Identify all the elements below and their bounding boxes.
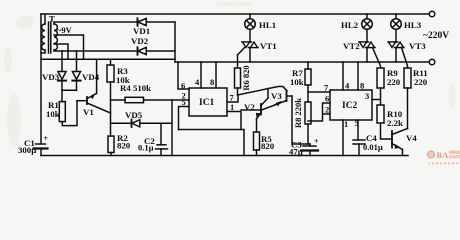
terminal bottom 220V [429, 59, 435, 65]
svg-text:4: 4 [345, 81, 350, 91]
svg-text:VT3: VT3 [409, 41, 426, 51]
svg-text:IC1: IC1 [199, 98, 215, 108]
IC U1 timer IC1 [189, 88, 227, 116]
svg-text:V3: V3 [271, 91, 282, 101]
svg-text:3: 3 [365, 91, 369, 101]
svg-text:+: + [314, 137, 319, 146]
wire VD1 cathode to junction [146, 21, 175, 23]
svg-text:VD1: VD1 [133, 26, 150, 36]
svg-text:HL1: HL1 [259, 20, 276, 30]
resistor R2 [108, 123, 114, 155]
triac VT2 [359, 42, 381, 68]
wire secondary top tap to VD1 [54, 22, 138, 24]
wire secondary tap2 [54, 35, 84, 59]
svg-text:5: 5 [182, 97, 186, 107]
wire IC2 pin4 [342, 62, 344, 90]
wire IC1 pin7 [227, 95, 238, 102]
svg-text:7: 7 [230, 93, 235, 103]
wire R6 to V3 collector rising line [238, 87, 288, 96]
svg-text:1: 1 [230, 102, 234, 112]
resistor R5 [254, 132, 260, 156]
svg-text:BA: BA [437, 150, 450, 160]
svg-text:10k: 10k [290, 77, 304, 87]
transformer T primary lead top [44, 14, 46, 24]
svg-text:1: 1 [344, 119, 348, 129]
resistor R6 [235, 68, 241, 95]
svg-text:8: 8 [360, 81, 364, 91]
lamp HL2 [362, 14, 373, 42]
svg-text:T: T [49, 14, 55, 24]
wire IC2 pin6 pin2 tie [308, 103, 330, 121]
resistor R10 [377, 105, 392, 139]
svg-text:4: 4 [195, 77, 200, 87]
resistor R7 [305, 62, 311, 102]
svg-text:2: 2 [325, 105, 329, 115]
svg-text:+: + [44, 134, 49, 143]
capacitor C4 [353, 140, 365, 156]
triac VT3 [388, 42, 408, 68]
diode VD4 [72, 51, 80, 90]
wire IC2 pin3 [372, 99, 381, 101]
svg-text:VT2: VT2 [343, 41, 360, 51]
wire IC1 pin5 [179, 107, 190, 130]
capacitor C1 [34, 144, 48, 156]
svg-text:R8 220k: R8 220k [293, 98, 303, 128]
svg-text:2.2k: 2.2k [387, 118, 403, 128]
wire top mains rail [41, 13, 429, 15]
svg-text:10k: 10k [46, 109, 60, 119]
svg-text:R6 820: R6 820 [241, 65, 251, 90]
svg-text:7: 7 [324, 83, 329, 93]
wire VD2 cathode to junction [146, 50, 175, 52]
transistor V1 [77, 59, 111, 113]
wire left edge [40, 14, 42, 144]
diode VD1 [138, 18, 147, 25]
wire secondary tap3 [54, 44, 68, 59]
lamp HL3 [391, 14, 402, 42]
wire IC1 pin1 [227, 112, 241, 130]
svg-text:VT1: VT1 [260, 41, 277, 51]
svg-text:300µ: 300µ [18, 145, 36, 155]
transformer T core [49, 22, 51, 53]
terminal top 220V [429, 11, 435, 17]
transistor V4 [392, 129, 408, 156]
wire mid rail left (y58) [41, 58, 175, 60]
wire VD3 VD4 cathode bus [62, 89, 77, 91]
scan smudges decorative [4, 2, 456, 147]
transistor V3 [262, 91, 311, 145]
resistor R3 [107, 59, 114, 123]
svg-text:220: 220 [414, 77, 428, 87]
svg-text:6: 6 [325, 94, 329, 104]
IC U2 timer IC2 [330, 90, 372, 120]
svg-text:47µ: 47µ [289, 147, 303, 157]
watermark logo [428, 150, 460, 164]
svg-text:5: 5 [355, 118, 359, 128]
resistor R8 [305, 102, 311, 144]
svg-text:R4 510k: R4 510k [120, 83, 151, 93]
diode VD3 [58, 51, 66, 90]
wire trigger column to ground [171, 100, 173, 156]
svg-text:220: 220 [387, 77, 401, 87]
wire IC1 pin4 [200, 62, 202, 88]
diode VD2 [138, 47, 147, 54]
svg-text:0.1µ: 0.1µ [138, 143, 154, 153]
wire IC2 pin1 [342, 120, 344, 156]
wire ground return U [179, 130, 245, 156]
svg-text:VD4: VD4 [82, 72, 100, 82]
svg-text:VD5: VD5 [125, 110, 143, 120]
wire IC1 pin6 [178, 62, 189, 89]
svg-text:8: 8 [210, 77, 214, 87]
wire IC2 pin5 [357, 120, 359, 140]
transistor V2 [241, 89, 268, 133]
svg-text:VD3: VD3 [42, 72, 60, 82]
resistor R4 [111, 97, 190, 102]
svg-text:V4: V4 [406, 133, 417, 143]
wire bottom ground rail [41, 155, 408, 157]
wire Vcc rail right (y62) [175, 61, 429, 63]
lamp HL1 [245, 14, 256, 42]
svg-text:6: 6 [181, 81, 185, 91]
capacitor C2 [156, 123, 168, 155]
wire IC2 pin7 [308, 91, 330, 93]
wire IC1 pin8 [215, 62, 217, 88]
svg-text:HL2: HL2 [341, 20, 359, 30]
diode VD5 [111, 120, 173, 128]
resistor R1 [59, 90, 65, 121]
svg-text:V2: V2 [244, 102, 255, 112]
transformer T primary coil [42, 24, 45, 50]
wire R1 bottom to base node [62, 101, 77, 126]
svg-text:820: 820 [261, 141, 275, 151]
svg-text:VD2: VD2 [131, 36, 149, 46]
svg-text:~9V: ~9V [57, 25, 73, 35]
capacitor C3 [301, 144, 318, 156]
svg-text:HL3: HL3 [404, 20, 422, 30]
svg-text:V1: V1 [83, 107, 94, 117]
triac VT1 [238, 42, 259, 68]
wire secondary bottom tap to VD2 [54, 50, 138, 51]
resistor R9 [377, 68, 384, 104]
transformer T secondary coil [54, 24, 57, 50]
transformer T primary lead bottom [41, 50, 45, 53]
resistor R11 [404, 68, 411, 129]
svg-text:~220V: ~220V [423, 31, 449, 41]
svg-text:0.01µ: 0.01µ [363, 142, 383, 152]
wire rectifier junction vertical [174, 22, 176, 62]
svg-text:820: 820 [117, 141, 131, 151]
svg-text:IC2: IC2 [342, 101, 358, 111]
wire IC2 pin8 [357, 62, 359, 90]
